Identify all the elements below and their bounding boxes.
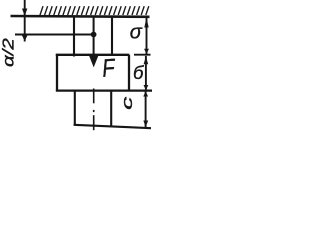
dimension a/2 top arrow bbox=[22, 9, 27, 17]
upper block left edge bbox=[56, 54, 58, 92]
upper block top edge bbox=[56, 54, 130, 56]
dimension c top arrow bbox=[143, 91, 148, 96]
dimension c bottom arrow bbox=[143, 121, 148, 128]
ceiling hatching bbox=[40, 6, 149, 15]
dimension a/2 vertical line bbox=[24, 0, 26, 42]
centerline (dash-dot axis) bbox=[93, 89, 95, 104]
ceiling line (fixed support) bbox=[11, 15, 150, 18]
svg-text:σ: σ bbox=[130, 22, 143, 44]
svg-text:α/2: α/2 bbox=[0, 38, 17, 67]
top edge right extension segment bbox=[134, 54, 151, 56]
lower block right edge bbox=[110, 91, 112, 127]
dimension c line (right) bbox=[145, 91, 147, 127]
dimension b line (right) bbox=[145, 56, 147, 91]
svg-text:б: б bbox=[133, 62, 144, 83]
svg-text:c: c bbox=[120, 96, 136, 110]
dimension b top arrow bbox=[144, 56, 149, 64]
dimension a bottom arrow bbox=[144, 49, 149, 55]
tab left edge bbox=[73, 17, 75, 57]
dimension a/2 bottom arrow bbox=[22, 35, 28, 41]
bottom edge with right extension (tilted) bbox=[74, 125, 151, 128]
tab right edge bbox=[111, 17, 113, 56]
dimension a line (right) bbox=[146, 17, 148, 55]
force F shaft bbox=[93, 17, 95, 61]
extension line at force level bbox=[15, 34, 91, 36]
upper block bottom edge with right extension bbox=[56, 89, 152, 91]
lower block left edge bbox=[74, 91, 76, 126]
dimension a top arrow bbox=[144, 18, 148, 28]
upper block right edge bbox=[128, 55, 130, 91]
node: force attachment dot bbox=[91, 32, 97, 38]
dimension b bottom arrow bbox=[144, 85, 149, 90]
force F arrowhead bbox=[89, 56, 98, 67]
